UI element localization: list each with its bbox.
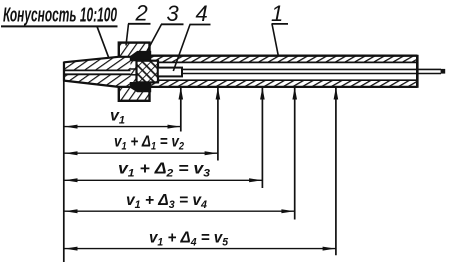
part 4 gland (cross-hatched seal) bbox=[137, 61, 159, 83]
part 1 tube bottom wall bbox=[150, 80, 417, 87]
part 2 flange body bbox=[119, 43, 150, 101]
pointer vertical for v2 with up arrow bbox=[216, 87, 221, 160]
svg-text:4: 4 bbox=[196, 1, 208, 26]
part 1 tube top wall bbox=[150, 56, 417, 63]
cone bore strip bbox=[64, 70, 131, 74]
left extension line bbox=[63, 62, 65, 262]
measuring rod head bbox=[158, 68, 182, 77]
dimension v2 bbox=[65, 134, 218, 156]
rod stub through flange bore bbox=[131, 69, 137, 75]
cone small-end face bbox=[63, 62, 65, 82]
callout 2 bbox=[126, 0, 151, 45]
pointer vertical for v1 with up arrow bbox=[179, 87, 184, 131]
callout 3 bbox=[146, 1, 184, 53]
callout 1 bbox=[271, 1, 288, 55]
dimension v5 bbox=[65, 230, 336, 251]
tube right end face bbox=[416, 55, 419, 88]
svg-text:Конусность 10:100: Конусность 10:100 bbox=[3, 5, 117, 27]
cone (taper plug), top section band bbox=[64, 57, 131, 71]
part 3 bushing, top (blackened section) bbox=[130, 51, 151, 61]
measuring rod stem bbox=[182, 69, 445, 74]
part 3 bushing, bottom (blackened section) bbox=[130, 82, 151, 92]
svg-text:3: 3 bbox=[167, 1, 180, 26]
pointer vertical for v4 with up arrow bbox=[292, 87, 297, 219]
leader from taper note to cone surface bbox=[97, 26, 109, 58]
callout 4 bbox=[173, 1, 210, 71]
dimension v3 bbox=[65, 161, 263, 183]
dimension v1 bbox=[65, 108, 181, 129]
pointer vertical for v5 with up arrow bbox=[334, 87, 339, 255]
cone (taper plug), bottom section band bbox=[64, 74, 131, 87]
dimension v4 bbox=[65, 192, 295, 213]
svg-text:1: 1 bbox=[271, 1, 283, 26]
taper note "Конусность 10:100" bbox=[1, 5, 118, 27]
svg-text:2: 2 bbox=[135, 0, 148, 25]
pointer vertical for v3 with up arrow bbox=[260, 87, 265, 188]
